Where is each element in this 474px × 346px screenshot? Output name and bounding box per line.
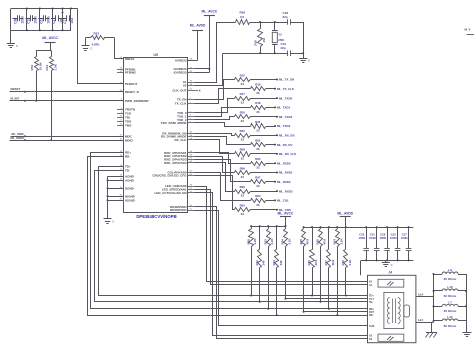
svg-text:C77: C77 xyxy=(63,18,67,24)
transformer T1 windings xyxy=(387,298,400,324)
svg-text:49.9: 49.9 xyxy=(314,259,318,265)
ground - inductor output xyxy=(463,321,472,337)
wire - cap bank left vertical xyxy=(10,9,12,31)
wire - LED_LINK to J4 xyxy=(195,187,368,282)
svg-text:33: 33 xyxy=(241,212,245,216)
svg-text:2.2K: 2.2K xyxy=(253,237,257,244)
svg-text:0.0: 0.0 xyxy=(240,15,245,19)
svg-text:ML_AVCC: ML_AVCC xyxy=(202,9,218,13)
svg-text:2.2K: 2.2K xyxy=(288,237,292,244)
svg-text:R59: R59 xyxy=(240,11,246,15)
svg-text:33: 33 xyxy=(241,175,245,179)
capacitor C19 22p xyxy=(281,42,304,56)
capacitor C18 22p xyxy=(283,11,304,25)
svg-text:1.5K: 1.5K xyxy=(53,63,57,70)
svg-text:RESET_N: RESET_N xyxy=(125,90,139,94)
resistor R99 33 / wire / node ML_RXD3 xyxy=(195,163,293,198)
svg-text:Y2: Y2 xyxy=(278,33,282,37)
resistor R91 33 / wire / node ML_RX_DV xyxy=(195,137,293,152)
svg-text:C68: C68 xyxy=(13,18,17,24)
power ML_AVCC (left) xyxy=(42,36,58,51)
svg-text:L9: L9 xyxy=(448,268,452,272)
svg-text:DP83848CVV/NOPB: DP83848CVV/NOPB xyxy=(136,214,176,219)
wire - inductor left vertical xyxy=(433,273,435,322)
resistor R16 33 / wire / node ML_TX_CLK xyxy=(195,83,295,104)
transformer right tab xyxy=(404,305,410,317)
svg-text:33: 33 xyxy=(241,138,245,142)
wire - LED_ACT to J4 xyxy=(195,193,368,336)
svg-text:RD-: RD- xyxy=(125,155,130,159)
svg-text:1&:4: 1&:4 xyxy=(418,294,424,297)
svg-text:CHS: CHS xyxy=(369,325,375,328)
resistor R29 49.9 xyxy=(299,226,310,313)
capacitor C68 100n xyxy=(13,15,25,23)
svg-text:MDIO: MDIO xyxy=(125,138,133,142)
svg-text:L16: L16 xyxy=(447,285,453,289)
wire - analog/digital grounds xyxy=(107,176,124,219)
inductor L16 60 Ohms xyxy=(434,285,467,298)
svg-text:RBIAS: RBIAS xyxy=(125,57,134,61)
power M_VCC (edge) xyxy=(465,28,474,35)
node ML_MDIO flag xyxy=(10,136,124,141)
svg-text:IOVDD33: IOVDD33 xyxy=(174,71,187,75)
wire - cap rail to J4 xyxy=(360,260,362,275)
svg-text:ML_TXD3: ML_TXD3 xyxy=(277,124,291,128)
wire - RESERVED2 to J4 xyxy=(195,211,368,326)
svg-text:AVDD33: AVDD33 xyxy=(175,58,187,62)
resistor R30 49.9 xyxy=(307,226,318,296)
svg-text:R18: R18 xyxy=(255,101,261,105)
capacitor C21 100N xyxy=(369,226,380,261)
resistor R95 33 / wire / node ML_RXD0 xyxy=(195,153,291,170)
wire - LED_SPEED to J4 xyxy=(195,190,368,285)
svg-text:33: 33 xyxy=(256,166,260,170)
svg-text:R29: R29 xyxy=(299,239,303,245)
svg-text:R95: R95 xyxy=(255,157,261,161)
wire - X2 to bottom rail xyxy=(195,54,223,86)
wire - cap bank tie xyxy=(39,8,41,32)
svg-text:R17: R17 xyxy=(240,92,246,96)
node RESET flag xyxy=(10,87,124,93)
ground - crystal xyxy=(299,59,310,63)
resistor R25 2.2K xyxy=(341,226,352,296)
svg-text:100N: 100N xyxy=(390,236,397,240)
svg-text:ML_RXD2: ML_RXD2 xyxy=(277,180,291,184)
connector J4 body xyxy=(368,271,416,343)
svg-text:60 Ohms: 60 Ohms xyxy=(444,277,457,281)
resistor R27 49.9 xyxy=(324,226,335,310)
svg-text:R38: R38 xyxy=(316,239,320,245)
wire - RD- to magnetics xyxy=(88,157,368,316)
svg-text:100n: 100n xyxy=(33,16,37,23)
resistor R15 33 / wire / node ML_TX_EN xyxy=(195,73,295,99)
svg-text:33: 33 xyxy=(241,119,245,123)
wire - TCT row xyxy=(286,298,368,300)
power ML_AVCC (bottom) xyxy=(278,211,294,227)
wire - cap bank bottom rail xyxy=(11,30,71,32)
svg-text:PWR_DOWN/INT: PWR_DOWN/INT xyxy=(125,99,149,103)
svg-text:49.9: 49.9 xyxy=(331,259,335,265)
svg-text:RD-: RD- xyxy=(369,314,374,317)
svg-text:R99: R99 xyxy=(240,185,246,189)
resistor R96 33 / wire / node ML_RXD1 xyxy=(195,157,293,179)
capacitor C77 plus mark xyxy=(61,11,63,13)
capacitor C26 100N xyxy=(379,226,390,261)
svg-text:ML_TXD2: ML_TXD2 xyxy=(279,115,293,119)
svg-text:249: 249 xyxy=(262,260,266,265)
svg-text:LED_ACT/COL/AN_EN: LED_ACT/COL/AN_EN xyxy=(154,191,186,195)
svg-text:RESERVED: RESERVED xyxy=(170,208,187,212)
svg-text:1M: 1M xyxy=(262,38,266,43)
wire - crystal right vertical xyxy=(302,22,304,58)
svg-text:R31: R31 xyxy=(272,260,276,266)
IC part number xyxy=(136,214,176,219)
ground - IC grounds xyxy=(104,219,115,224)
capacitor C17 .1u xyxy=(51,15,63,23)
resistor R53 2.2K xyxy=(263,225,274,310)
inductor L9 60 Ohms xyxy=(434,268,467,281)
svg-text:ML_AVDD: ML_AVDD xyxy=(190,24,206,28)
svg-text:R20: R20 xyxy=(240,111,246,115)
svg-text:2.2K: 2.2K xyxy=(339,237,343,244)
svg-text:R94: R94 xyxy=(255,194,261,198)
svg-text:33: 33 xyxy=(241,101,245,105)
svg-text:ML_RXD1: ML_RXD1 xyxy=(279,171,293,175)
svg-text:R22: R22 xyxy=(240,129,246,133)
svg-text:ML_RX_DV: ML_RX_DV xyxy=(277,143,292,147)
svg-text:2.2K: 2.2K xyxy=(270,237,274,244)
wire - crystal bottom rail xyxy=(223,52,288,54)
svg-text:TD-: TD- xyxy=(369,301,373,304)
svg-text:R54: R54 xyxy=(281,239,285,245)
capacitor C15 100n xyxy=(26,15,38,23)
wire - AVDD rail xyxy=(304,227,414,229)
svg-text:2.2K: 2.2K xyxy=(348,258,352,265)
svg-text:D: D xyxy=(308,60,310,63)
svg-text:D: D xyxy=(391,264,393,267)
wire - TD+ to magnetics xyxy=(99,167,368,296)
svg-text:ML_TXD0: ML_TXD0 xyxy=(279,96,293,100)
svg-text:R22: R22 xyxy=(255,260,259,266)
wire - cap bank bottom rail 2 xyxy=(361,260,413,262)
connector J4 right pin 1 xyxy=(416,294,434,297)
resistor R13 1.5K xyxy=(45,57,57,71)
svg-text:R13: R13 xyxy=(45,65,49,71)
svg-text:33: 33 xyxy=(256,184,260,188)
wire - cap bank tie xyxy=(26,8,28,32)
wire - R13 to MDIO xyxy=(50,71,52,142)
resistor R23 4.87K xyxy=(86,32,115,47)
ground - cap bank 2 xyxy=(382,260,393,266)
capacitor C27 100N xyxy=(401,226,412,261)
svg-text:PFBIN2: PFBIN2 xyxy=(125,71,136,75)
connector J4 left pins xyxy=(362,281,375,341)
svg-text:M_V: M_V xyxy=(465,28,471,32)
svg-text:R27: R27 xyxy=(324,260,328,266)
svg-text:R26: R26 xyxy=(246,239,250,245)
svg-text:ML_AVCC: ML_AVCC xyxy=(278,211,294,215)
svg-text:CLK_OUT: CLK_OUT xyxy=(172,88,186,92)
svg-text:1&:4: 1&:4 xyxy=(418,319,424,322)
svg-text:ML_AVDD: ML_AVDD xyxy=(337,211,353,215)
wire - RD+ to magnetics xyxy=(91,153,368,309)
svg-text:100N: 100N xyxy=(358,236,365,240)
wire - cap bank top rail xyxy=(11,8,78,10)
svg-text:ML_AVCC: ML_AVCC xyxy=(42,36,58,40)
inductor L7 60 Ohms xyxy=(434,300,467,313)
wire - pullup split xyxy=(36,51,51,57)
resistor R94 33 / wire / node ML_COL xyxy=(195,173,290,207)
svg-text:ML_RXD3: ML_RXD3 xyxy=(279,189,293,193)
svg-text:4.87K: 4.87K xyxy=(92,42,101,46)
wire - X1 to crystal xyxy=(195,23,236,83)
resistor R31 249 xyxy=(272,225,283,316)
svg-text:J4: J4 xyxy=(389,271,393,275)
wire - cap bank tie xyxy=(52,8,54,32)
svg-text:R98: R98 xyxy=(240,148,246,152)
svg-text:ML_RXD0: ML_RXD0 xyxy=(277,161,291,165)
svg-text:R25: R25 xyxy=(341,260,345,266)
resistor R17 33 / wire / node ML_TXD0 xyxy=(195,92,293,113)
wire - RCT row xyxy=(304,311,368,313)
svg-text:M_INT: M_INT xyxy=(11,96,20,100)
svg-text:RXD_3/PHYAD4: RXD_3/PHYAD4 xyxy=(164,161,187,165)
power ML_AVCC (top) xyxy=(195,9,218,72)
svg-text:33: 33 xyxy=(256,128,260,132)
power ML_AVDD (top) xyxy=(188,24,206,61)
resistor R20 33 / wire / node ML_TXD2 xyxy=(195,111,293,124)
svg-text:100N: 100N xyxy=(369,236,376,240)
LED indicator 1 xyxy=(378,279,404,287)
svg-text:R19: R19 xyxy=(254,40,258,46)
resistor R98 33 / wire / node ML_RX_CLK xyxy=(195,140,298,161)
svg-text:33: 33 xyxy=(256,203,260,207)
resistor R21 33 / wire / node ML_TXD3 xyxy=(195,120,291,133)
svg-text:33: 33 xyxy=(241,194,245,198)
svg-text:DGND: DGND xyxy=(125,187,135,191)
resistor R19 1M xyxy=(254,22,266,53)
resistor R97 33 / wire / node ML_RXD2 xyxy=(195,160,291,189)
svg-text:D: D xyxy=(113,221,115,224)
svg-text:60 Ohms: 60 Ohms xyxy=(444,324,457,328)
svg-text:R23: R23 xyxy=(94,32,100,36)
connector J4 right pin 2 xyxy=(416,319,434,323)
svg-text:ML_RX_EN: ML_RX_EN xyxy=(279,134,294,138)
resistor R59 0.0 xyxy=(236,11,250,25)
svg-text:49.9: 49.9 xyxy=(323,238,327,244)
svg-text:ML_TXD1: ML_TXD1 xyxy=(277,106,291,110)
inductor L12 60 Ohms xyxy=(434,315,467,328)
svg-text:X2: X2 xyxy=(183,84,187,88)
svg-text:R54: R54 xyxy=(30,65,34,71)
node CLK_OUT stub xyxy=(195,88,201,92)
svg-text:D: D xyxy=(16,45,18,48)
wire - RESERVED1 to J4 xyxy=(195,207,368,339)
svg-text:ML_COL: ML_COL xyxy=(277,199,289,203)
svg-text:33: 33 xyxy=(241,156,245,160)
svg-text:R91: R91 xyxy=(255,138,261,142)
transformer T1 core box xyxy=(384,292,404,328)
svg-text:TXD_3/SNI_MODE: TXD_3/SNI_MODE xyxy=(161,121,187,125)
svg-text:RESET: RESET xyxy=(11,87,21,91)
svg-text:100n: 100n xyxy=(20,16,24,23)
svg-text:RX_CLK: RX_CLK xyxy=(174,138,187,142)
resistor R54 2.2K xyxy=(281,225,292,300)
svg-text:TX_CLK: TX_CLK xyxy=(175,102,188,106)
op-amp U1 IC U9 body xyxy=(124,53,188,213)
svg-text:R96: R96 xyxy=(240,166,246,170)
svg-text:100n: 100n xyxy=(46,16,50,23)
wire - crystal top rail xyxy=(250,21,288,23)
crystal Y2 xyxy=(272,22,284,53)
svg-text:ML_RX_CLK: ML_RX_CLK xyxy=(279,152,297,156)
capacitor C20 100N xyxy=(358,226,369,261)
LED indicator 2 xyxy=(378,334,404,341)
wire - R54 to M_INT xyxy=(35,71,37,102)
svg-text:33: 33 xyxy=(256,147,260,151)
resistor R24 2.2K xyxy=(333,226,344,316)
capacitor C77 10u xyxy=(62,15,74,23)
resistor R38 49.9 xyxy=(316,226,327,303)
svg-text:100N: 100N xyxy=(401,236,408,240)
resistor R22 249 xyxy=(255,225,266,303)
svg-text:ML_TX_CLK: ML_TX_CLK xyxy=(277,87,295,91)
svg-text:R21: R21 xyxy=(255,120,261,124)
svg-text:ML_TX_EN: ML_TX_EN xyxy=(279,78,294,82)
ground - R23 xyxy=(82,38,93,51)
wire - cap bank tie xyxy=(62,8,64,32)
wire - R23 to RBIAS xyxy=(115,38,124,59)
svg-text:249: 249 xyxy=(279,260,283,265)
svg-text:L12: L12 xyxy=(447,315,453,319)
svg-text:L7: L7 xyxy=(448,300,452,304)
svg-text:R97: R97 xyxy=(255,176,261,180)
svg-text:R15: R15 xyxy=(240,73,246,77)
svg-text:60 Ohms: 60 Ohms xyxy=(444,294,457,298)
capacitor C16 100n xyxy=(39,15,51,23)
svg-text:CRS/CRS_DV/LED_CFG: CRS/CRS_DV/LED_CFG xyxy=(152,174,187,178)
capacitor C25 100N xyxy=(390,226,401,261)
resistor R92 33 / wire / node ML_CRS xyxy=(195,176,291,217)
svg-text:R24: R24 xyxy=(333,239,337,245)
svg-text:R16: R16 xyxy=(255,83,261,87)
svg-text:R92: R92 xyxy=(240,204,246,208)
svg-text:22p: 22p xyxy=(281,46,286,50)
resistor R26 2.2K xyxy=(246,225,257,296)
svg-text:49.9: 49.9 xyxy=(306,238,310,244)
wire - AVCC termination rail xyxy=(251,226,285,228)
svg-text:PFBOUT: PFBOUT xyxy=(125,82,138,86)
svg-text:U9: U9 xyxy=(154,53,158,57)
svg-text:10.0K: 10.0K xyxy=(38,61,42,70)
IC left pins xyxy=(117,57,149,203)
svg-text:R30: R30 xyxy=(307,260,311,266)
svg-text:100N: 100N xyxy=(379,236,386,240)
resistor R18 33 / wire / node ML_TXD1 xyxy=(195,101,291,116)
svg-text:K: K xyxy=(199,88,201,92)
power ML_AVDD (bottom) xyxy=(337,211,353,227)
ground - chassis xyxy=(426,322,438,337)
resistor R54 10.0K xyxy=(30,57,42,71)
svg-text:60 Ohms: 60 Ohms xyxy=(444,309,457,313)
svg-text:TD-: TD- xyxy=(125,169,130,173)
svg-text:AGND: AGND xyxy=(125,178,135,182)
ground - cap bank xyxy=(7,30,18,48)
svg-text:33: 33 xyxy=(241,82,245,86)
node ML_MDC flag xyxy=(11,132,124,137)
node M_INT flag xyxy=(10,96,124,102)
wire - cap bank right end xyxy=(70,8,72,31)
wire - TD- to magnetics xyxy=(95,171,368,302)
svg-text:TMS: TMS xyxy=(125,123,131,127)
svg-text:ML_MDIO: ML_MDIO xyxy=(11,136,25,140)
wire - PFBOUT feed xyxy=(78,9,124,84)
svg-text:IOGND: IOGND xyxy=(125,198,136,202)
svg-text:33: 33 xyxy=(256,91,260,95)
resistor R22 33 / wire / node ML_RX_EN xyxy=(195,129,295,142)
svg-text:22p: 22p xyxy=(283,15,288,19)
wire - inductor right vertical xyxy=(465,274,467,321)
svg-text:R53: R53 xyxy=(263,239,267,245)
IC right pins xyxy=(152,58,194,212)
svg-text:33: 33 xyxy=(256,110,260,114)
svg-text:D: D xyxy=(91,47,93,50)
